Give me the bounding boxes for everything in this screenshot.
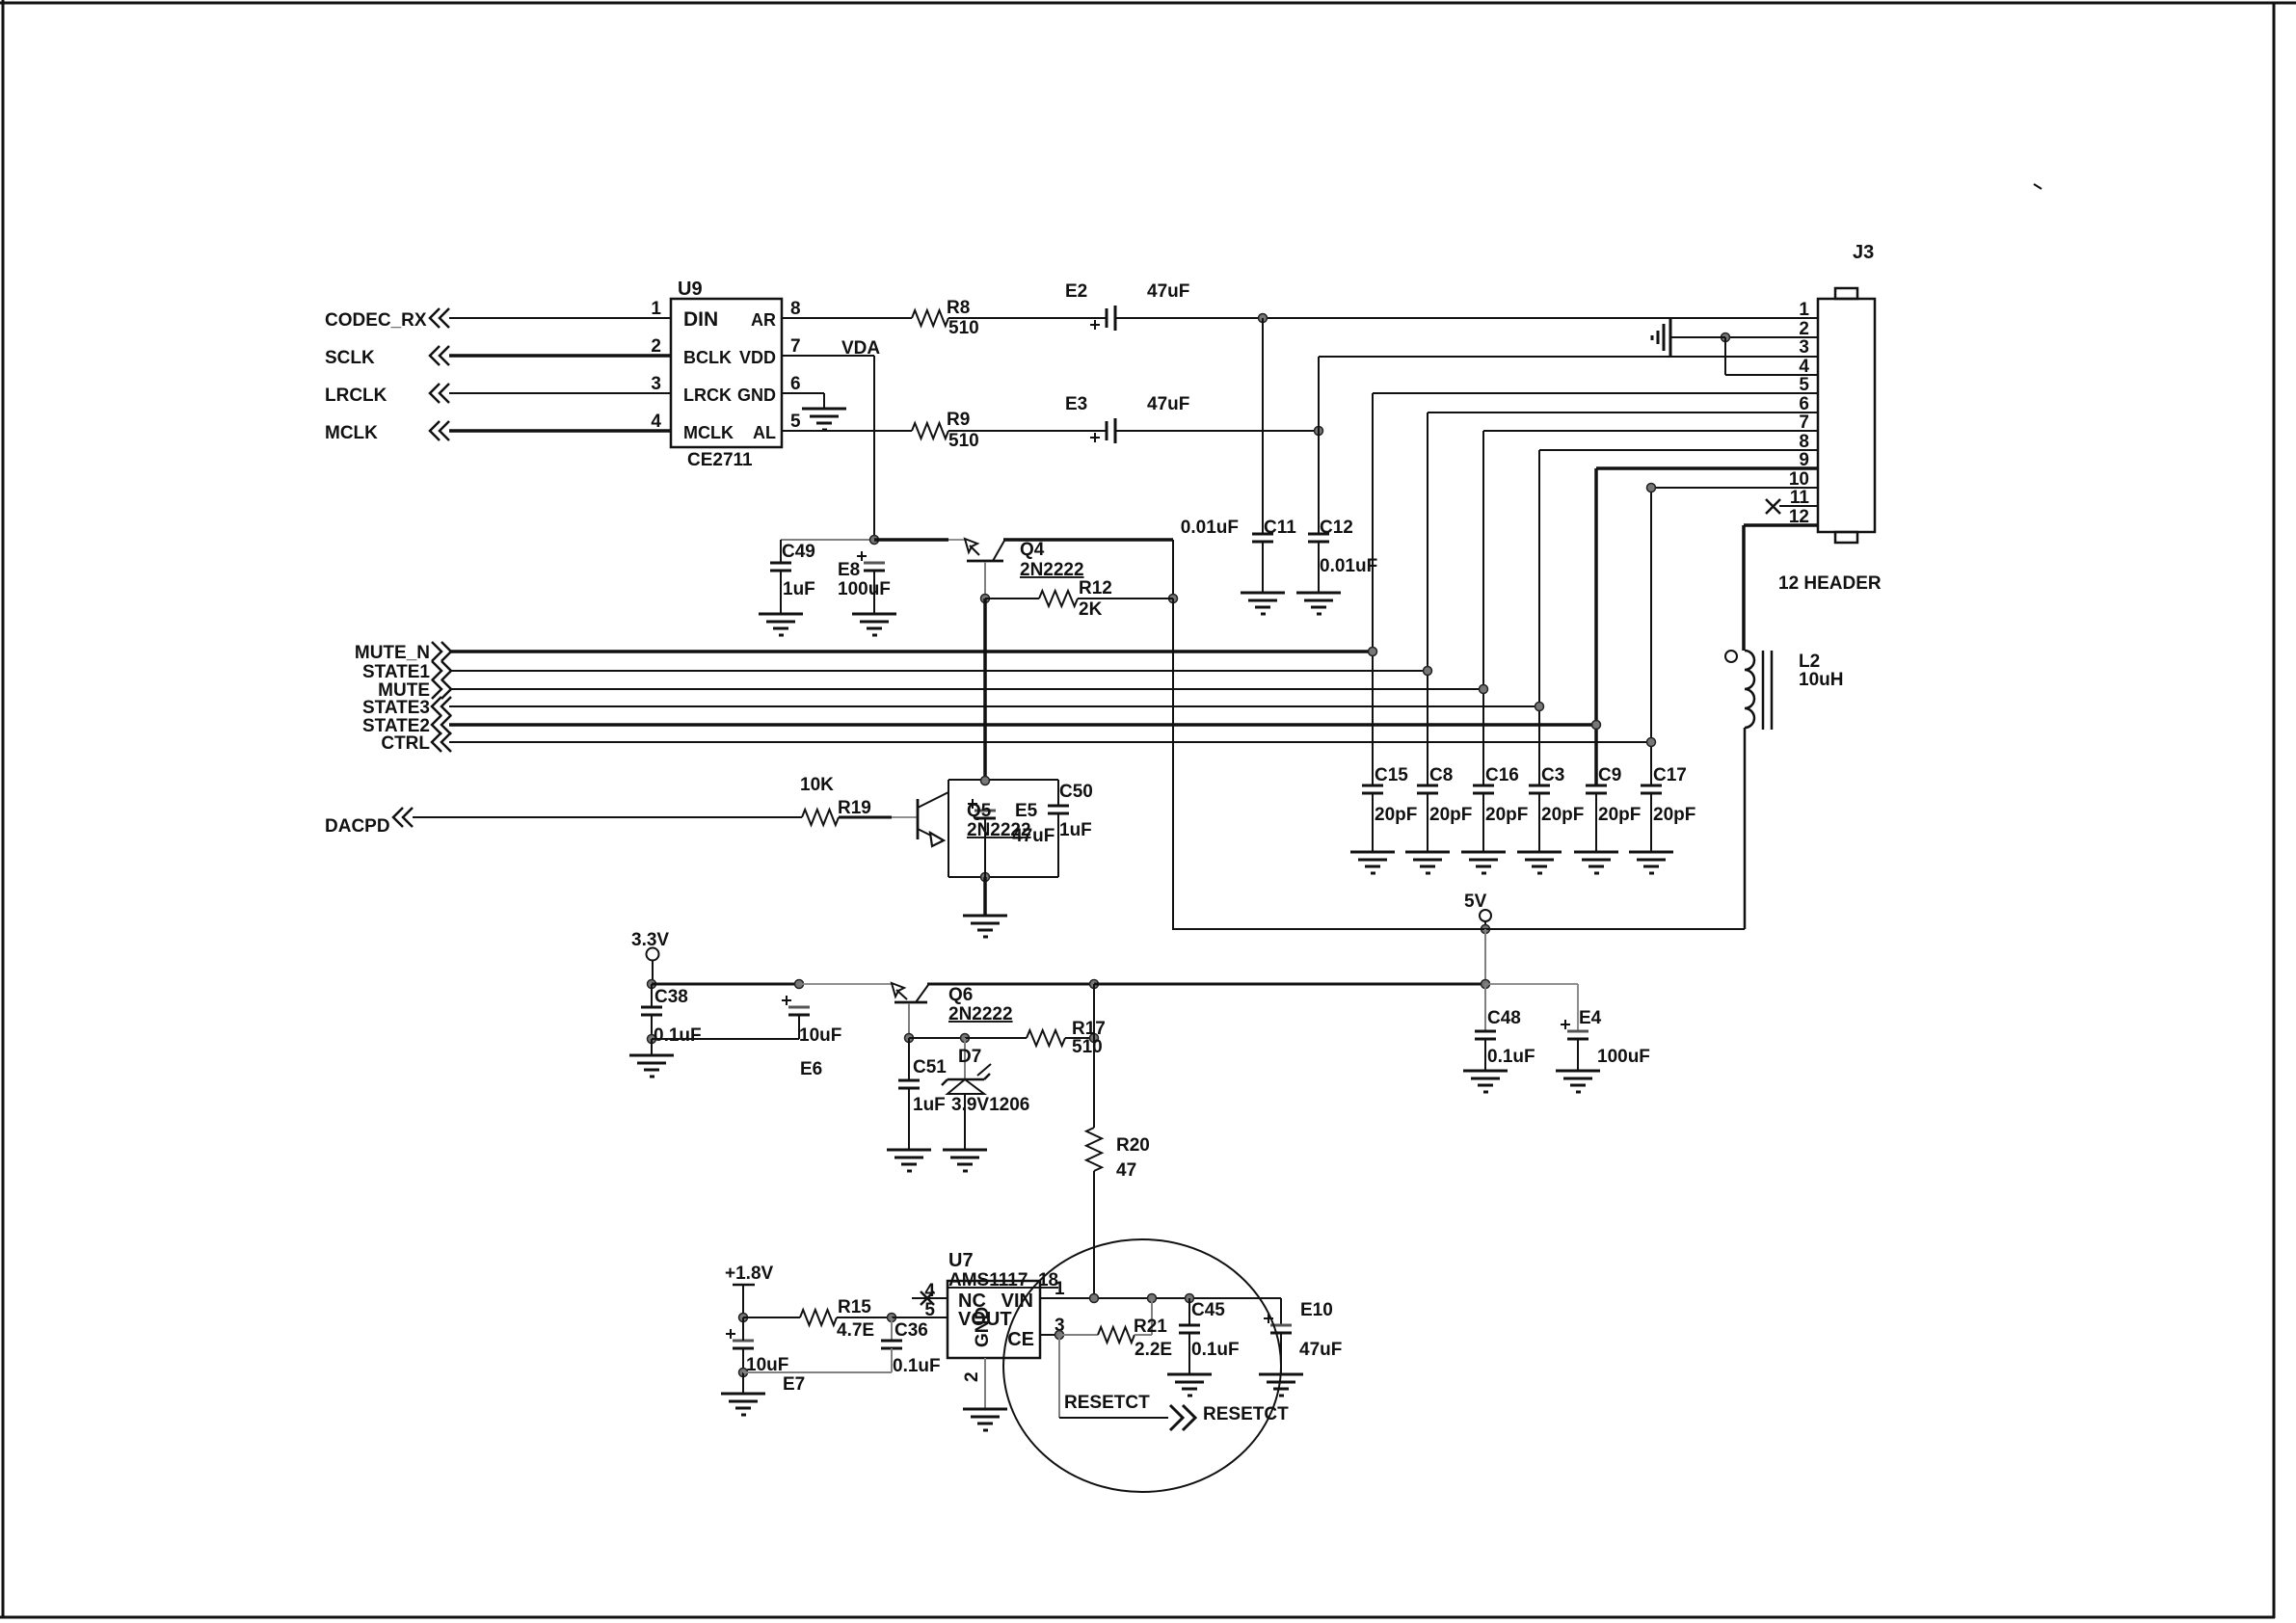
svg-text:0.01uF: 0.01uF (1181, 518, 1239, 538)
svg-text:2N2222: 2N2222 (1020, 560, 1084, 580)
svg-text:5: 5 (790, 412, 801, 432)
svg-text:20pF: 20pF (1429, 805, 1472, 825)
svg-text:2: 2 (1799, 319, 1809, 339)
svg-text:C8: C8 (1429, 765, 1453, 785)
svg-text:510: 510 (948, 318, 979, 338)
svg-text:6: 6 (790, 374, 801, 394)
svg-text:47uF: 47uF (1299, 1340, 1342, 1360)
svg-text:C49: C49 (782, 542, 815, 562)
svg-text:Q6: Q6 (948, 985, 973, 1005)
svg-text:R20: R20 (1116, 1135, 1150, 1156)
svg-text:5: 5 (924, 1300, 935, 1320)
svg-text:C36: C36 (894, 1320, 928, 1341)
svg-text:C17: C17 (1653, 765, 1687, 785)
svg-text:STATE1: STATE1 (362, 662, 430, 682)
svg-text:R17: R17 (1072, 1019, 1106, 1039)
svg-text:8: 8 (790, 299, 801, 319)
svg-text:4: 4 (1799, 357, 1809, 377)
svg-text:E8: E8 (838, 560, 860, 580)
svg-text:2K: 2K (1079, 599, 1103, 620)
svg-text:C38: C38 (654, 987, 688, 1007)
svg-text:CE2711: CE2711 (687, 450, 753, 470)
svg-text:GND: GND (973, 1307, 993, 1347)
svg-text:4: 4 (651, 412, 661, 432)
svg-text:CE: CE (1007, 1329, 1034, 1350)
svg-text:0.1uF: 0.1uF (893, 1356, 941, 1376)
svg-text:R15: R15 (838, 1297, 871, 1317)
svg-text:E2: E2 (1065, 281, 1087, 302)
svg-text:47: 47 (1116, 1160, 1136, 1181)
svg-text:MCLK: MCLK (683, 423, 734, 442)
svg-text:C3: C3 (1541, 765, 1564, 785)
svg-text:E6: E6 (800, 1059, 822, 1079)
svg-text:E5: E5 (1015, 801, 1038, 821)
svg-text:0.1uF: 0.1uF (1487, 1047, 1535, 1067)
svg-text:8: 8 (1799, 432, 1809, 452)
svg-text:2: 2 (651, 336, 661, 357)
svg-text:J3: J3 (1853, 242, 1874, 263)
svg-text:10K: 10K (800, 775, 834, 795)
svg-text:MCLK: MCLK (325, 423, 378, 443)
svg-text:10uH: 10uH (1799, 670, 1843, 690)
svg-text:LRCK: LRCK (683, 386, 732, 405)
svg-text:+1.8V: +1.8V (725, 1264, 774, 1284)
svg-text:SCLK: SCLK (325, 348, 375, 368)
svg-text:AMS1117_18: AMS1117_18 (948, 1270, 1058, 1290)
svg-text:10: 10 (1789, 469, 1809, 490)
svg-text:E3: E3 (1065, 394, 1087, 414)
svg-text:C9: C9 (1598, 765, 1621, 785)
svg-text:20pF: 20pF (1541, 805, 1584, 825)
svg-text:0.1uF: 0.1uF (1191, 1340, 1240, 1360)
svg-text:U9: U9 (678, 279, 703, 300)
svg-text:R8: R8 (947, 298, 970, 318)
svg-text:3.9V1206: 3.9V1206 (951, 1095, 1029, 1115)
svg-text:20pF: 20pF (1598, 805, 1641, 825)
svg-text:20pF: 20pF (1375, 805, 1417, 825)
svg-text:47uF: 47uF (1012, 826, 1055, 846)
svg-text:1: 1 (651, 299, 661, 319)
svg-text:VDA: VDA (841, 338, 880, 359)
svg-text:4.7E: 4.7E (837, 1320, 874, 1341)
svg-text:CODEC_RX: CODEC_RX (325, 310, 427, 331)
svg-text:MUTE_N: MUTE_N (355, 643, 430, 663)
svg-text:20pF: 20pF (1653, 805, 1695, 825)
svg-text:1uF: 1uF (783, 579, 815, 599)
svg-text:E10: E10 (1300, 1300, 1333, 1320)
svg-text:7: 7 (1799, 412, 1809, 433)
svg-text:R19: R19 (838, 798, 871, 818)
svg-text:GND: GND (737, 386, 776, 405)
svg-text:C50: C50 (1059, 782, 1093, 802)
svg-text:7: 7 (790, 336, 801, 357)
svg-text:C45: C45 (1191, 1300, 1225, 1320)
svg-text:L2: L2 (1799, 652, 1820, 672)
svg-text:1uF: 1uF (913, 1095, 946, 1115)
svg-text:R21: R21 (1134, 1317, 1167, 1337)
svg-text:2.2E: 2.2E (1135, 1340, 1172, 1360)
svg-text:5V: 5V (1464, 891, 1487, 912)
svg-text:5: 5 (1799, 375, 1809, 395)
svg-text:47uF: 47uF (1147, 281, 1189, 302)
svg-text:11: 11 (1790, 488, 1810, 508)
svg-text:RESETCT: RESETCT (1203, 1404, 1289, 1424)
svg-text:100uF: 100uF (1597, 1047, 1650, 1067)
svg-text:AL: AL (753, 423, 776, 442)
svg-text:0.1uF: 0.1uF (654, 1025, 702, 1046)
svg-text:C11: C11 (1264, 518, 1296, 538)
svg-text:2N2222: 2N2222 (948, 1004, 1013, 1024)
svg-text:C15: C15 (1375, 765, 1408, 785)
svg-text:510: 510 (1072, 1037, 1103, 1057)
svg-text:4: 4 (924, 1281, 935, 1301)
svg-text:LRCLK: LRCLK (325, 386, 387, 406)
svg-text:DACPD: DACPD (325, 816, 390, 837)
svg-text:510: 510 (948, 431, 979, 451)
svg-text:E4: E4 (1579, 1008, 1602, 1028)
svg-text:RESETCT: RESETCT (1064, 1393, 1150, 1413)
svg-text:D7: D7 (958, 1047, 981, 1067)
svg-text:E7: E7 (783, 1374, 805, 1395)
svg-text:6: 6 (1799, 394, 1809, 414)
svg-text:100uF: 100uF (838, 579, 891, 599)
svg-text:BCLK: BCLK (683, 348, 732, 367)
svg-text:3.3V: 3.3V (631, 930, 669, 950)
svg-text:1: 1 (1055, 1279, 1065, 1299)
svg-text:1: 1 (1799, 300, 1809, 320)
svg-text:VDD: VDD (739, 348, 776, 367)
svg-text:R12: R12 (1079, 578, 1112, 599)
svg-text:R9: R9 (947, 410, 970, 430)
svg-text:C12: C12 (1320, 518, 1353, 538)
svg-text:CTRL: CTRL (381, 733, 430, 754)
svg-text:STATE3: STATE3 (362, 698, 430, 718)
svg-text:Q5: Q5 (967, 801, 992, 821)
svg-text:AR: AR (751, 310, 776, 330)
svg-text:10uF: 10uF (799, 1025, 841, 1046)
svg-text:Q4: Q4 (1020, 540, 1045, 560)
svg-text:C51: C51 (913, 1057, 947, 1078)
svg-text:DIN: DIN (683, 308, 718, 331)
svg-text:C48: C48 (1487, 1008, 1521, 1028)
svg-text:3: 3 (651, 374, 661, 394)
svg-text:47uF: 47uF (1147, 394, 1189, 414)
svg-text:3: 3 (1799, 337, 1809, 358)
svg-text:C16: C16 (1485, 765, 1519, 785)
svg-text:0.01uF: 0.01uF (1320, 556, 1377, 576)
svg-text:12 HEADER: 12 HEADER (1778, 573, 1882, 594)
svg-text:2: 2 (962, 1371, 982, 1382)
svg-text:U7: U7 (948, 1250, 974, 1271)
svg-text:1uF: 1uF (1059, 820, 1092, 840)
svg-text:20pF: 20pF (1485, 805, 1528, 825)
